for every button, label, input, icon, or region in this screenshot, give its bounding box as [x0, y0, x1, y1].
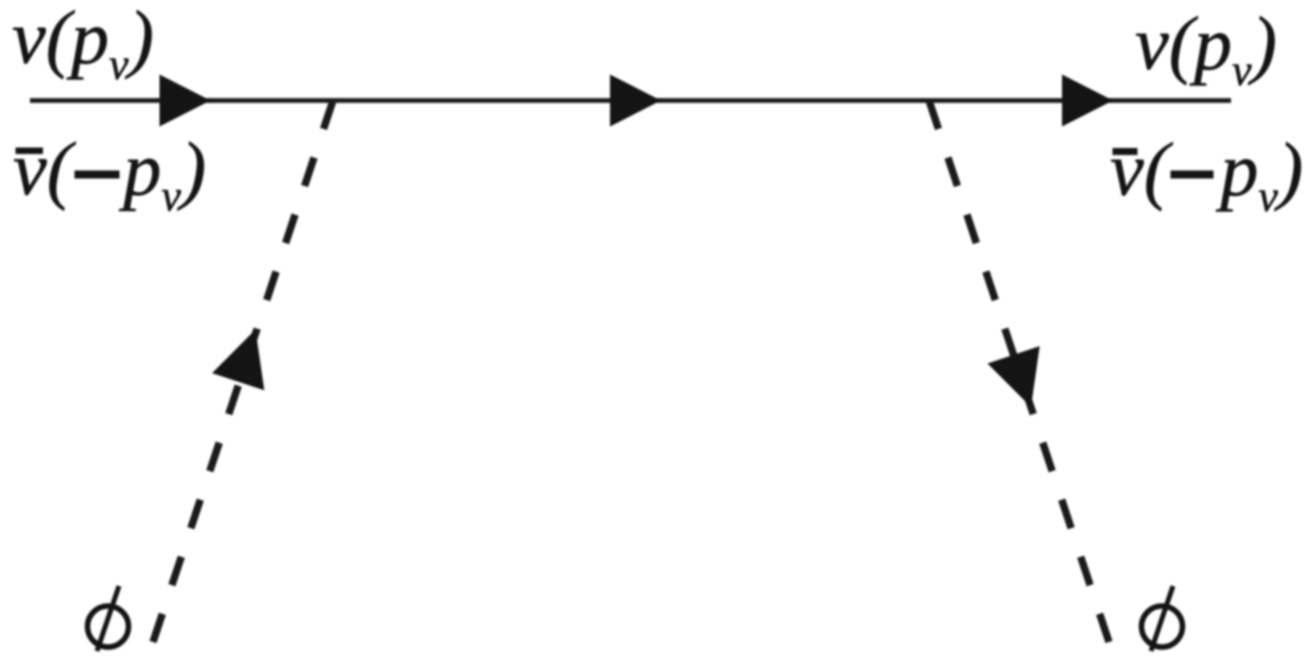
fermion propagator line (nu)	[30, 98, 1231, 103]
arrowhead A3 on fermion line	[1062, 75, 1113, 127]
svg-text:ν(pν): ν(pν)	[12, 0, 154, 89]
arrowhead on left scalar line (pointing up toward vertex)	[212, 330, 264, 391]
arrowhead A2 on fermion line	[610, 75, 661, 127]
label phi (left): circle part	[88, 606, 129, 647]
label phi (left): stem stroke	[97, 586, 119, 651]
label phi (right): circle part	[1142, 606, 1183, 647]
minus sign bar bottom-right	[1171, 171, 1214, 179]
label phi (right): stem stroke	[1151, 586, 1173, 651]
overbar of nubar bottom-left	[16, 148, 44, 155]
arrowhead on right scalar line (pointing down away from vertex)	[988, 346, 1040, 407]
dashed scalar line phi (left)	[153, 101, 333, 643]
overbar of nubar bottom-right	[1113, 148, 1138, 155]
svg-text:ν(pν): ν(pν)	[1135, 2, 1277, 95]
minus sign bar bottom-left	[75, 171, 120, 179]
dashed scalar line phi (right)	[929, 101, 1109, 643]
arrowhead A1 on fermion line	[160, 75, 211, 127]
